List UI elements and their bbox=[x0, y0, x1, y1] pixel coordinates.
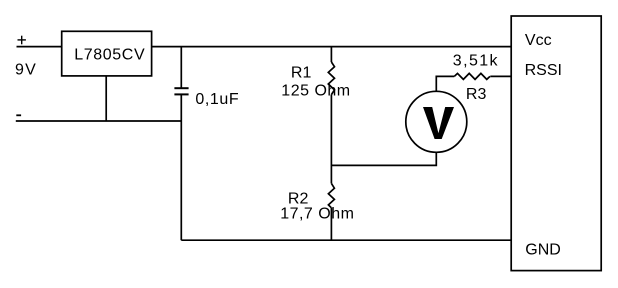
svg-text:L7805CV: L7805CV bbox=[74, 46, 145, 63]
svg-text:RSSI: RSSI bbox=[525, 62, 562, 79]
wire: battery plus to regulator input bbox=[17, 46, 62, 48]
voltmeter M1 V symbol bbox=[423, 107, 454, 139]
svg-text:9V: 9V bbox=[15, 62, 37, 79]
wire: battery minus rail bbox=[16, 120, 182, 122]
wire: R3 right to RSSI pin bbox=[490, 75, 511, 77]
wire: capacitor bottom plate down to ground rail bbox=[180, 94, 182, 240]
resistor R1 zigzag body bbox=[328, 62, 334, 95]
wire: 5V top rail from regulator output to Vcc pin bbox=[152, 46, 512, 48]
wire: R1 bottom to R2 top (divider midpoint) bbox=[330, 95, 332, 184]
capacitor C1 plates bbox=[174, 88, 188, 94]
wire: top rail down to resistor R1 bbox=[330, 47, 332, 62]
svg-text:Vcc: Vcc bbox=[525, 32, 552, 49]
svg-text:17,7 Ohm: 17,7 Ohm bbox=[280, 206, 354, 223]
svg-text:R1: R1 bbox=[291, 64, 312, 81]
svg-text:0,1uF: 0,1uF bbox=[195, 91, 239, 108]
receiver module U2 body bbox=[511, 16, 601, 271]
svg-text:R3: R3 bbox=[466, 86, 487, 103]
voltmeter M1 body circle bbox=[406, 91, 467, 152]
wire: divider midpoint to voltmeter bottom bbox=[331, 152, 436, 165]
wire: ground bottom rail to GND pin bbox=[181, 239, 511, 241]
battery minus terminal marker bbox=[16, 114, 21, 116]
resistor R2 zigzag body bbox=[328, 183, 334, 207]
wire: top rail to capacitor top plate bbox=[180, 47, 182, 89]
wire: voltmeter top to R3 left bbox=[436, 76, 454, 91]
svg-text:3,51k: 3,51k bbox=[453, 53, 499, 70]
resistor R3 zigzag body bbox=[454, 73, 490, 79]
regulator U1 L7805CV body bbox=[62, 31, 152, 76]
wire: regulator ground pin bbox=[105, 76, 107, 121]
svg-text:125 Ohm: 125 Ohm bbox=[281, 82, 350, 99]
battery plus terminal marker bbox=[18, 36, 26, 45]
svg-text:GND: GND bbox=[525, 242, 561, 259]
wire: R2 bottom to ground rail bbox=[330, 208, 332, 240]
